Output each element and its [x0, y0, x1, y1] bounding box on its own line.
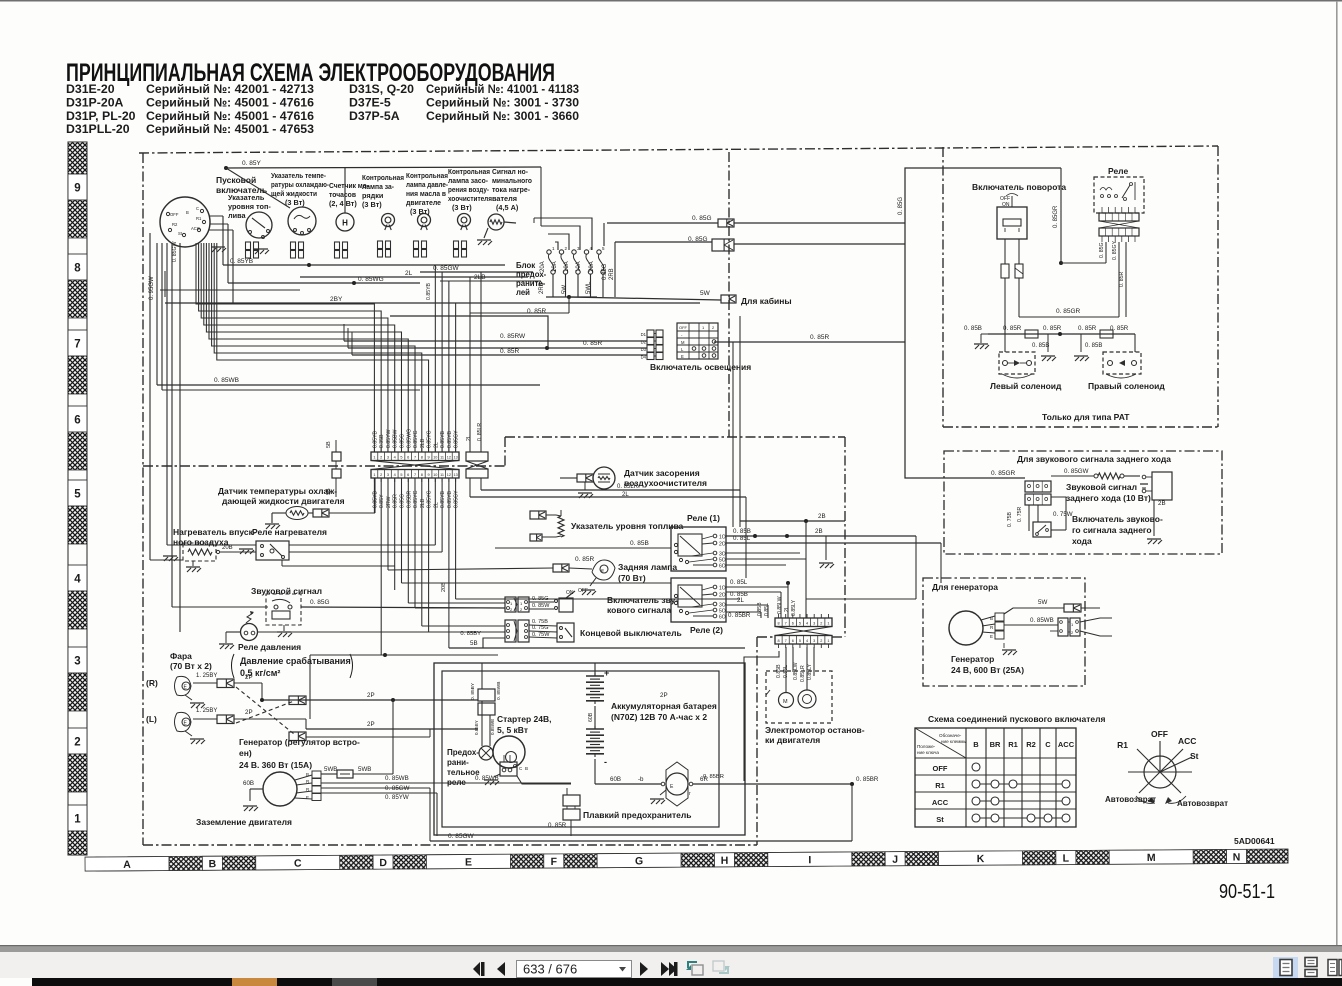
headlamp R connector — [217, 679, 234, 688]
svg-text:0.85YG: 0.85YG — [413, 490, 419, 508]
svg-text:5: 5 — [74, 489, 81, 501]
svg-text:2P: 2P — [660, 692, 668, 699]
svg-text:2L: 2L — [784, 606, 790, 612]
svg-text:0. 85B: 0. 85B — [964, 325, 982, 332]
svg-text:ния масла в: ния масла в — [406, 189, 446, 198]
svg-text:Автовозврат: Автовозврат — [1105, 795, 1156, 804]
svg-text:2B: 2B — [818, 513, 826, 520]
PAT solenoid bus — [988, 333, 1135, 335]
svg-text:0. 85R: 0. 85R — [1043, 325, 1062, 332]
air heater wire 20B — [220, 551, 256, 553]
svg-text:5: 5 — [799, 639, 801, 643]
svg-text:0.35B: 0.35B — [379, 434, 385, 448]
svg-text:2: 2 — [74, 737, 80, 749]
svg-text:Для генератора: Для генератора — [932, 582, 998, 592]
svg-text:2P: 2P — [245, 674, 253, 681]
svg-text:D1: D1 — [641, 332, 647, 337]
svg-text:E: E — [681, 354, 684, 359]
svg-text:Стартер 24В,: Стартер 24В, — [497, 714, 552, 724]
relay 1 — [671, 527, 726, 571]
starter block ground — [484, 779, 498, 781]
turn switch diodes — [1001, 264, 1009, 278]
svg-text:2RB: 2RB — [609, 268, 615, 280]
svg-text:Датчик температуры охлаж-: Датчик температуры охлаж- — [218, 486, 337, 496]
svg-text:рения возду-: рения возду- — [448, 185, 489, 194]
wire 0.85WB — [321, 782, 571, 784]
previous view icon — [686, 962, 703, 975]
svg-text:1: 1 — [827, 639, 829, 643]
svg-text:2LB: 2LB — [474, 274, 486, 281]
svg-text:0. 85BR: 0. 85BR — [856, 776, 879, 783]
svg-text:0. 85GW: 0. 85GW — [172, 241, 178, 262]
rear lamp — [592, 560, 615, 580]
svg-text:Блок: Блок — [516, 261, 535, 270]
svg-text:(L): (L) — [146, 714, 157, 724]
PAT wire to relay — [1060, 168, 1062, 263]
svg-text:0. 75G: 0. 75G — [532, 625, 549, 631]
heater relay — [256, 541, 289, 560]
2-pin verticals — [469, 277, 471, 452]
switch drop wires — [222, 216, 224, 265]
gauge ground 1 — [211, 246, 225, 248]
svg-text:4: 4 — [394, 473, 396, 477]
svg-text:10A: 10A — [552, 261, 558, 272]
svg-text:0.85YW: 0.85YW — [386, 429, 392, 448]
fuse block — [547, 246, 605, 274]
wire 2P lower — [306, 728, 478, 730]
svg-text:Аккумуляторная батарея: Аккумуляторная батарея — [611, 701, 717, 711]
facing pages layout icon — [1328, 960, 1342, 976]
heater signal wire — [504, 222, 516, 223]
svg-text:Включатель зву-: Включатель зву- — [607, 595, 678, 605]
section border lower jogs — [757, 636, 775, 638]
svg-text:0. 85WG: 0. 85WG — [358, 276, 384, 283]
gauge connectors row — [246, 242, 251, 250]
svg-text:1O: 1O — [719, 535, 726, 541]
svg-text:0. 85GR: 0. 85GR — [1053, 205, 1059, 228]
svg-text:2P: 2P — [367, 692, 375, 699]
svg-text:0.85YG: 0.85YG — [427, 430, 433, 448]
solenoid feeds — [1004, 334, 1006, 352]
svg-text:0. 85GW: 0. 85GW — [385, 785, 410, 792]
heater signal ground — [477, 239, 491, 241]
svg-text:0.85YB: 0.85YB — [372, 430, 378, 448]
svg-text:H: H — [342, 219, 348, 228]
svg-text:2: 2 — [380, 473, 382, 477]
svg-text:B: B — [209, 858, 217, 870]
pressure switch wires — [226, 631, 240, 633]
svg-text:0. 85GW: 0. 85GW — [448, 833, 475, 840]
svg-text:0.85YB: 0.85YB — [426, 282, 432, 300]
fuel sender connectors — [530, 511, 546, 519]
svg-text:0. 85R: 0. 85R — [1003, 325, 1022, 332]
svg-text:Реле нагревателя: Реле нагревателя — [252, 527, 327, 537]
section border left — [142, 153, 144, 845]
svg-text:Схема соединений пускового вкл: Схема соединений пускового включателя — [928, 714, 1105, 724]
wire 0.85G upper right — [734, 222, 905, 224]
turn switch — [997, 194, 1027, 240]
svg-text:2L: 2L — [433, 442, 439, 448]
svg-text:633 / 676: 633 / 676 — [523, 962, 577, 977]
relay 2 output wires — [726, 586, 788, 588]
starter block wires — [517, 776, 571, 784]
wire to PAT relay — [905, 168, 1061, 245]
svg-text:0. 75B: 0. 75B — [1007, 511, 1013, 527]
air cleaner sensor connector — [577, 474, 593, 482]
svg-text:D4: D4 — [641, 355, 647, 360]
svg-text:0. 85G: 0. 85G — [692, 215, 712, 222]
headlamp L ground — [190, 738, 204, 740]
svg-text:0.85LY: 0.85LY — [807, 663, 813, 680]
svg-text:0. 85Y: 0. 85Y — [242, 160, 261, 167]
svg-text:R1: R1 — [196, 216, 202, 221]
bundle labels — [372, 429, 459, 448]
svg-text:Контрольная: Контрольная — [406, 171, 448, 180]
svg-text:точасов: точасов — [329, 190, 356, 199]
5B connector — [332, 452, 341, 461]
svg-text:10A: 10A — [564, 261, 570, 272]
key table circuits — [972, 763, 1070, 822]
svg-text:9: 9 — [74, 183, 80, 195]
taskbar — [32, 978, 1342, 986]
svg-text:12: 12 — [447, 456, 451, 460]
starter switch wires to harness — [209, 215, 223, 217]
coolant temp sensor ground — [265, 523, 279, 525]
section border right vertical — [844, 437, 846, 618]
page number combo — [517, 961, 632, 978]
wire 5B to starter box — [449, 647, 745, 649]
svg-text:D37E-5: D37E-5 — [349, 95, 391, 109]
svg-text:E: E — [306, 795, 309, 800]
cab connector — [721, 295, 736, 303]
svg-text:Реле (2): Реле (2) — [690, 625, 723, 635]
svg-text:60B: 60B — [588, 712, 594, 722]
wire 0.85GW mid — [321, 787, 430, 789]
svg-text:0.85G: 0.85G — [399, 494, 405, 508]
svg-text:0.85GY: 0.85GY — [454, 490, 460, 508]
svg-text:2L: 2L — [737, 597, 744, 604]
svg-text:0.85BW: 0.85BW — [393, 429, 399, 448]
svg-text:0.85G: 0.85G — [602, 263, 608, 280]
left ruler strip — [68, 142, 87, 855]
svg-text:G: G — [635, 855, 643, 867]
battery 2 — [586, 728, 604, 730]
section border lower-right vertical — [756, 637, 758, 845]
svg-text:0.85WB: 0.85WB — [490, 719, 495, 735]
rear horn section box — [944, 451, 1222, 554]
svg-text:2: 2 — [380, 456, 382, 460]
wire 2L lower — [469, 478, 471, 497]
svg-text:2BY: 2BY — [330, 296, 343, 303]
below connector labels — [372, 490, 459, 508]
air cleaner sensor — [593, 467, 615, 489]
svg-text:-: - — [604, 757, 607, 767]
wire 0.85BR from connector — [744, 651, 779, 781]
limit switch connector — [505, 620, 529, 642]
svg-text:0. 85GR: 0. 85GR — [1056, 308, 1081, 315]
backup switch out — [1051, 529, 1066, 531]
wire 0.85G upper — [603, 223, 605, 246]
svg-text:0. 85R: 0. 85R — [575, 556, 594, 563]
svg-text:5AD00641: 5AD00641 — [1234, 836, 1275, 846]
svg-text:0. 85L: 0. 85L — [733, 535, 751, 542]
svg-text:Указатель: Указатель — [228, 193, 265, 202]
svg-text:лива: лива — [228, 211, 247, 220]
svg-text:Плавкий предохранитель: Плавкий предохранитель — [583, 810, 691, 820]
svg-text:2L: 2L — [466, 435, 472, 441]
svg-text:B: B — [990, 616, 993, 621]
horn wire 0.85G — [301, 607, 505, 608]
svg-text:2O: 2O — [719, 593, 726, 599]
wire diagonal to temp gauge — [226, 168, 290, 208]
svg-text:8: 8 — [778, 639, 780, 643]
svg-text:0. 85WB: 0. 85WB — [214, 377, 239, 384]
svg-text:3: 3 — [813, 639, 815, 643]
svg-text:3: 3 — [387, 473, 389, 477]
PAT ground drops — [1047, 334, 1049, 352]
headlamp L connector — [217, 715, 234, 724]
svg-text:2: 2 — [820, 622, 822, 626]
mid harness left stubs — [343, 324, 345, 341]
svg-text:2LB: 2LB — [420, 498, 426, 508]
svg-text:OFF: OFF — [1151, 729, 1168, 739]
svg-text:Для звукового сигнала заднего: Для звукового сигнала заднего хода — [1017, 454, 1171, 464]
svg-text:0. 75W: 0. 75W — [532, 632, 550, 638]
svg-text:6: 6 — [407, 473, 409, 477]
wire 0.85B fuel — [495, 547, 671, 549]
svg-text:0. 85BY: 0. 85BY — [460, 631, 481, 637]
coolant temp sensor connector — [313, 509, 329, 517]
pressure switch — [241, 611, 258, 641]
svg-text:0.85YB: 0.85YB — [372, 490, 378, 508]
headlamp cross dashed wires — [236, 687, 294, 734]
toolbar background — [0, 952, 1342, 978]
last page button — [661, 962, 669, 976]
svg-text:Серийный №: 3001 - 3660: Серийный №: 3001 - 3660 — [426, 109, 579, 123]
svg-text:уровня топ-: уровня топ- — [228, 202, 271, 211]
svg-text:4: 4 — [74, 574, 81, 586]
alternator ground — [243, 805, 257, 807]
generator section box — [923, 578, 1085, 686]
svg-text:лей: лей — [516, 288, 530, 297]
horn switch wires — [529, 601, 554, 603]
svg-text:2B: 2B — [815, 528, 823, 535]
svg-text:0. 85R: 0. 85R — [548, 822, 567, 829]
svg-text:5, 5 кВт: 5, 5 кВт — [497, 725, 528, 735]
svg-text:7: 7 — [785, 622, 787, 626]
horn relay connector — [1025, 481, 1051, 492]
svg-text:Указатель уровня топлива: Указатель уровня топлива — [571, 521, 684, 531]
air sensor wires — [481, 489, 740, 491]
svg-text:OFF: OFF — [933, 764, 948, 773]
svg-text:e: e — [601, 568, 604, 574]
heater relay out wires — [289, 544, 435, 546]
svg-text:рани-: рани- — [447, 758, 469, 767]
svg-text:0. 85R: 0. 85R — [527, 308, 546, 315]
rear horn ground — [1153, 500, 1155, 536]
heater signal — [488, 214, 504, 230]
svg-text:5W: 5W — [562, 285, 568, 294]
svg-text:1: 1 — [373, 473, 375, 477]
svg-text:6: 6 — [792, 622, 794, 626]
wire horn feed — [172, 606, 268, 608]
air heater ground 2 — [186, 566, 200, 568]
svg-text:5WL: 5WL — [586, 281, 592, 294]
svg-text:M: M — [783, 699, 788, 705]
svg-text:5W: 5W — [1038, 599, 1047, 606]
svg-text:ки двигателя: ки двигателя — [765, 735, 820, 745]
svg-text:0. 85L: 0. 85L — [730, 579, 748, 586]
svg-text:5: 5 — [400, 456, 402, 460]
svg-text:тельное: тельное — [447, 768, 480, 777]
bottom ruler strip — [85, 849, 1288, 871]
svg-text:2L: 2L — [622, 492, 629, 498]
starter switch — [160, 197, 210, 247]
svg-text:C: C — [294, 858, 302, 870]
svg-text:0. 85B: 0. 85B — [630, 540, 649, 547]
svg-text:ние клеммы: ние клеммы — [941, 739, 967, 744]
connector 0.85G lower — [712, 239, 734, 251]
svg-text:90-51-1: 90-51-1 — [1219, 880, 1275, 903]
safety relay — [479, 746, 493, 760]
wire 0.85G lower right — [734, 243, 905, 245]
wire to rear lamp — [388, 568, 553, 570]
wire 0.85R y316 — [390, 316, 548, 348]
svg-text:D2: D2 — [641, 340, 647, 345]
svg-text:Задняя лампа: Задняя лампа — [618, 562, 677, 572]
headlamp R — [175, 676, 192, 695]
svg-text:R1: R1 — [1117, 740, 1128, 750]
svg-text:20A: 20A — [589, 261, 595, 272]
svg-text:0.85BY: 0.85BY — [474, 720, 479, 735]
svg-text:Концевой выключатель: Концевой выключатель — [580, 628, 682, 638]
starter box outer — [434, 663, 745, 835]
wires down to bottom bus — [429, 788, 431, 841]
limit switch — [557, 623, 574, 642]
svg-text:BR: BR — [990, 740, 1001, 749]
rear lamp connector — [553, 564, 569, 572]
svg-text:0. 85BR: 0. 85BR — [703, 774, 724, 780]
wire hour meter drop — [344, 168, 346, 213]
safety relay connectors — [478, 689, 495, 701]
svg-text:0. 85BY: 0. 85BY — [470, 682, 476, 700]
svg-text:Серийный №: 3001 - 3730: Серийный №: 3001 - 3730 — [426, 95, 579, 109]
section border top — [139, 146, 1218, 153]
stop motor ground — [650, 798, 664, 800]
headlamp L — [175, 712, 192, 731]
svg-text:0. 85GW: 0. 85GW — [1064, 468, 1089, 475]
single page layout icon — [1273, 957, 1298, 978]
wire bus 2L — [300, 276, 528, 278]
PAT wire 0.85GR horizontal — [1019, 316, 1119, 318]
svg-text:Заземление двигателя: Заземление двигателя — [196, 817, 292, 827]
svg-text:Предох-: Предох- — [447, 748, 479, 757]
vertical feeder wires — [732, 342, 734, 527]
stop motor wires — [785, 647, 787, 692]
svg-text:D31PLL-20: D31PLL-20 — [66, 122, 130, 136]
svg-text:кового сигнала: кового сигнала — [607, 605, 671, 615]
svg-text:D31P, PL-20: D31P, PL-20 — [66, 109, 136, 123]
svg-text:2RB: 2RB — [539, 282, 545, 294]
turn switch wires — [1004, 239, 1006, 264]
svg-text:10: 10 — [433, 456, 437, 460]
svg-text:5B: 5B — [470, 640, 478, 647]
svg-text:2B: 2B — [1158, 500, 1166, 507]
svg-text:хоочистителя: хоочистителя — [448, 194, 492, 203]
svg-text:0. 85WB: 0. 85WB — [385, 775, 409, 782]
svg-text:+: + — [604, 668, 609, 678]
wire motor right — [693, 783, 852, 785]
air cleaner sensor ground — [578, 492, 592, 494]
svg-text:Электромотор останов-: Электромотор останов- — [765, 725, 865, 735]
svg-text:Правый соленоид: Правый соленоид — [1088, 381, 1165, 391]
svg-text:3: 3 — [813, 622, 815, 626]
svg-text:13: 13 — [453, 473, 457, 477]
svg-text:Сигнал но-: Сигнал но- — [492, 167, 529, 176]
svg-text:6: 6 — [407, 456, 409, 460]
wires to relay 2 — [402, 582, 672, 584]
section border PAT box bottom — [943, 426, 1218, 428]
wire 0.85G lower — [614, 242, 616, 297]
svg-text:(70 Вт x 2): (70 Вт x 2) — [170, 661, 212, 671]
horn switch connector — [505, 597, 529, 612]
svg-text:0.85G: 0.85G — [399, 434, 405, 448]
svg-text:1: 1 — [74, 814, 81, 826]
svg-text:R2: R2 — [172, 222, 178, 227]
svg-text:0.85Y: 0.85Y — [379, 494, 385, 508]
big generator — [949, 611, 1004, 645]
alternator — [263, 771, 321, 806]
svg-text:1. 25BY: 1. 25BY — [196, 708, 217, 714]
svg-text:0. 85GR: 0. 85GR — [991, 470, 1016, 477]
svg-text:0.85B: 0.85B — [757, 602, 763, 616]
svg-text:Контрольная: Контрольная — [362, 173, 404, 182]
svg-text:D31S, Q-20: D31S, Q-20 — [349, 82, 414, 96]
PAT ground left — [974, 343, 988, 345]
svg-text:Контрольная: Контрольная — [448, 167, 490, 176]
svg-text:D37P-5A: D37P-5A — [349, 109, 400, 123]
svg-text:5B: 5B — [326, 441, 332, 448]
wire 0.85R to right — [714, 341, 905, 343]
prev page button — [497, 962, 505, 976]
right solenoid — [1103, 352, 1141, 378]
horn ground — [277, 631, 291, 633]
gauge ground 2 — [254, 248, 268, 250]
wire bus 2BY long — [165, 302, 700, 304]
heater relay ground — [239, 548, 253, 550]
svg-text:0. 85R: 0. 85R — [500, 348, 519, 355]
svg-text:I: I — [808, 854, 811, 866]
relay 2 — [671, 578, 726, 622]
headlamp R wire — [234, 682, 262, 684]
svg-text:ратуры охлаждаю-: ратуры охлаждаю- — [271, 180, 329, 189]
svg-text:2P: 2P — [245, 709, 253, 716]
13-pin connector — [371, 452, 459, 461]
svg-text:заднего хода (10 Вт): заднего хода (10 Вт) — [1066, 493, 1151, 503]
coolant temp sensor — [286, 507, 308, 520]
svg-text:реле: реле — [447, 778, 466, 787]
svg-text:ного воздуха: ного воздуха — [173, 537, 229, 547]
svg-text:9: 9 — [427, 456, 429, 460]
svg-text:M: M — [681, 340, 685, 345]
svg-text:0. 85R: 0. 85R — [1078, 325, 1097, 332]
svg-text:тока нагре-: тока нагре- — [492, 185, 531, 194]
coolant temp sensor wire — [329, 512, 375, 514]
svg-text:двигателе: двигателе — [406, 198, 441, 207]
PAT relay drop wires — [1061, 262, 1106, 264]
svg-text:0. 85B: 0. 85B — [733, 528, 751, 535]
svg-text:ON: ON — [566, 590, 574, 596]
